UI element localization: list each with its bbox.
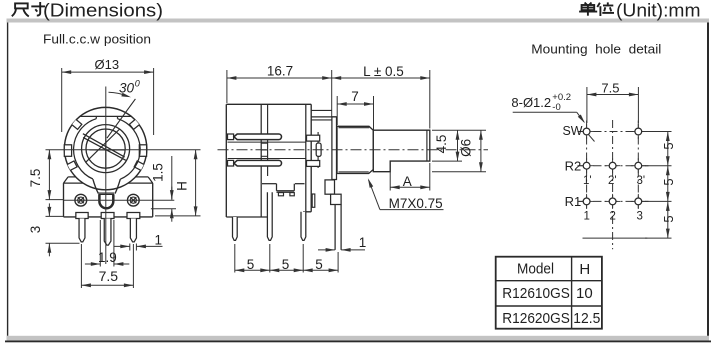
svg-text:5: 5 — [247, 257, 255, 272]
svg-text:5: 5 — [661, 178, 676, 185]
svg-text:5: 5 — [661, 215, 676, 222]
svg-text:2': 2' — [608, 175, 617, 187]
svg-text:0: 0 — [135, 79, 140, 89]
svg-text:A: A — [403, 174, 412, 189]
svg-text:H: H — [175, 181, 190, 191]
svg-text:3': 3' — [637, 175, 646, 187]
svg-text:3: 3 — [28, 226, 43, 234]
svg-text:5: 5 — [661, 142, 676, 149]
svg-text:(Unit):mm: (Unit):mm — [616, 0, 701, 21]
svg-text:Ø6: Ø6 — [459, 139, 474, 157]
svg-text:10: 10 — [576, 285, 593, 302]
svg-text:R2: R2 — [565, 159, 582, 174]
svg-text:(Dimensions): (Dimensions) — [43, 0, 163, 21]
svg-text:H: H — [579, 261, 590, 278]
svg-text:R12620GS: R12620GS — [502, 310, 570, 327]
svg-text:12.5: 12.5 — [573, 310, 600, 327]
svg-text:1': 1' — [583, 175, 592, 187]
svg-text:Full.c.c.w position: Full.c.c.w position — [43, 32, 151, 47]
svg-text:7.5: 7.5 — [99, 268, 119, 284]
svg-text:R12610GS: R12610GS — [502, 285, 570, 302]
svg-text:SW: SW — [563, 123, 584, 138]
svg-text:5: 5 — [282, 257, 290, 272]
svg-text:L ± 0.5: L ± 0.5 — [363, 64, 404, 79]
svg-text:30: 30 — [119, 81, 135, 96]
svg-text:1: 1 — [359, 235, 367, 250]
svg-text:7.5: 7.5 — [601, 81, 619, 96]
svg-text:3: 3 — [637, 211, 643, 223]
svg-text:7: 7 — [351, 89, 359, 104]
svg-text:R1: R1 — [565, 194, 582, 209]
svg-text:7.5: 7.5 — [28, 169, 43, 188]
svg-text:1.9: 1.9 — [98, 250, 117, 265]
svg-text:2: 2 — [610, 211, 616, 223]
svg-text:1.5: 1.5 — [151, 163, 166, 182]
svg-text:Ø13: Ø13 — [95, 57, 120, 72]
svg-text:1: 1 — [584, 211, 590, 223]
svg-text:Model: Model — [517, 261, 554, 278]
svg-text:M7X0.75: M7X0.75 — [389, 196, 443, 211]
svg-text:Mounting hole detail: Mounting hole detail — [531, 42, 661, 57]
svg-text:5: 5 — [315, 257, 323, 272]
svg-text:16.7: 16.7 — [267, 63, 293, 78]
svg-text:8-Ø1.2: 8-Ø1.2 — [511, 95, 551, 110]
svg-text:1: 1 — [155, 233, 163, 248]
svg-text:-0: -0 — [552, 102, 560, 113]
svg-text:4.5: 4.5 — [434, 135, 449, 154]
